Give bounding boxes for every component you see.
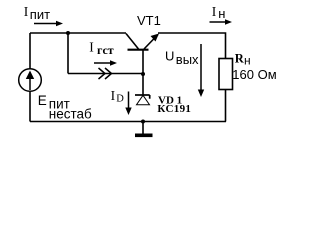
label I_gst xyxy=(89,40,113,58)
svg-text:I: I xyxy=(212,4,217,19)
current stabilizer chevron 2 xyxy=(105,68,112,79)
label I_D xyxy=(111,88,125,105)
label R_n xyxy=(235,52,251,68)
svg-text:нестаб: нестаб xyxy=(49,107,92,122)
svg-text:КС191: КС191 xyxy=(157,103,191,115)
arrow I_gst xyxy=(94,60,117,66)
source E1 circle xyxy=(19,69,42,92)
svg-text:I: I xyxy=(24,4,29,19)
svg-text:I: I xyxy=(111,88,116,103)
ground xyxy=(135,122,153,138)
arrow U_vyh (measuring line) xyxy=(198,44,204,97)
svg-text:вых: вых xyxy=(176,52,199,67)
svg-text:U: U xyxy=(165,49,174,64)
svg-text:пит: пит xyxy=(30,7,50,22)
arrow I_D xyxy=(125,92,131,116)
svg-text:I: I xyxy=(89,40,94,55)
transistor VT1 xyxy=(126,34,159,96)
label E pit nestab xyxy=(38,93,92,122)
wire top-left (supply rail) xyxy=(30,32,126,34)
wire bottom rail xyxy=(30,121,226,123)
node junction at supply rail xyxy=(66,31,70,35)
svg-text:н: н xyxy=(218,6,225,21)
node bottom junction xyxy=(141,120,145,124)
svg-text:160 Ом: 160 Ом xyxy=(232,67,276,82)
wire left vertical (supply) xyxy=(29,33,31,122)
current stabilizer chevron 1 xyxy=(99,68,106,79)
wire resistor to bottom rail xyxy=(225,90,227,122)
label U_vyh xyxy=(165,49,199,68)
svg-text:E: E xyxy=(38,93,47,108)
label I_n xyxy=(212,4,226,21)
arrow I_pit xyxy=(34,21,63,27)
source E1 arrow xyxy=(26,71,34,91)
zener diode VD1 xyxy=(135,95,150,105)
wire I_gst branch vertical xyxy=(67,33,69,74)
svg-text:D: D xyxy=(116,94,124,105)
svg-text:VT1: VT1 xyxy=(137,13,161,28)
label I_pit xyxy=(24,4,50,22)
resistor R_n xyxy=(219,59,233,90)
arrow I_n xyxy=(210,19,233,25)
wire top-right (output rail) xyxy=(158,33,226,59)
wire I_gst branch horizontal xyxy=(68,73,143,75)
svg-text:гст: гст xyxy=(97,43,114,57)
node base junction xyxy=(141,72,145,76)
svg-text:н: н xyxy=(244,54,251,68)
